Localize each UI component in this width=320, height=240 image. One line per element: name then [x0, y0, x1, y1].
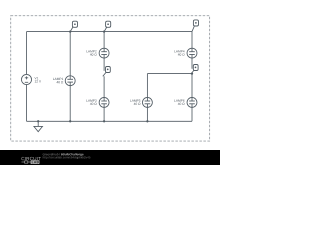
switch SW1	[70, 21, 77, 31]
label V1 12 V	[35, 77, 42, 82]
node bottom junction LAMP1	[69, 120, 71, 122]
wire LAMP5 top lead	[146, 74, 148, 98]
label LAMP5 40 ohm	[130, 100, 140, 105]
wire top rail	[27, 31, 193, 33]
label LAMP6 40 ohm	[174, 99, 184, 104]
wire LAMP1 top lead	[69, 32, 71, 76]
wire V1 bottom lead	[26, 85, 28, 122]
lamp LAMP1	[65, 76, 75, 86]
label LAMP4 40 ohm	[174, 50, 184, 55]
voltage source V1	[21, 74, 31, 84]
node top junction A	[69, 30, 71, 32]
switch SW3	[103, 67, 111, 77]
footer watermark bar	[0, 150, 220, 165]
label LAMP2 40 ohm	[86, 50, 96, 55]
label LAMP1 40 ohm	[53, 78, 63, 83]
lamp LAMP3	[99, 97, 109, 107]
lamp LAMP6	[187, 97, 197, 107]
node ground junction	[37, 120, 39, 122]
wire SW3 to LAMP3	[103, 76, 105, 97]
wire LAMP2 top lead	[103, 32, 105, 49]
wire LAMP6 top lead	[191, 74, 193, 98]
switch SW2	[104, 21, 111, 31]
lamp LAMP4	[187, 48, 197, 58]
node top junction B	[103, 30, 105, 32]
wire LAMP2 to SW3	[103, 58, 105, 71]
switch SW5	[191, 65, 198, 75]
wire LAMP4 to SW5	[191, 58, 193, 69]
ground	[34, 121, 43, 131]
wire LAMP5 bottom lead	[146, 107, 148, 121]
node bottom junction LAMP3	[103, 120, 105, 122]
lamp LAMP2	[99, 48, 109, 58]
label LAMP3 40 ohm	[86, 99, 96, 104]
wire LAMP4 top lead	[191, 32, 193, 49]
wire bottom rail	[27, 120, 193, 122]
switch SW4	[192, 20, 199, 32]
wire LAMP6 bottom lead	[191, 107, 193, 121]
wire V1 top lead	[26, 32, 28, 75]
wire LAMP3 bottom lead	[103, 107, 105, 121]
wire LAMP1 bottom lead	[69, 86, 71, 122]
node mid junction	[191, 72, 193, 74]
lamp LAMP5	[142, 97, 152, 107]
node bottom junction LAMP5	[146, 120, 148, 122]
wire mid rail	[147, 73, 192, 75]
